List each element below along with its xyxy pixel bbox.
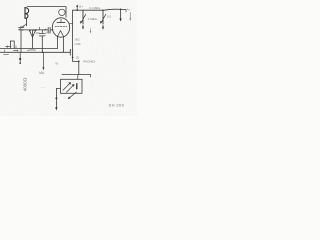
tube V1 envelope bbox=[52, 18, 69, 37]
svg-text:4000Ω: 4000Ω bbox=[22, 77, 27, 91]
pot R1 with arrow bbox=[80, 10, 86, 29]
capacitor C3 series plates bbox=[47, 27, 49, 33]
svg-text:0.5: 0.5 bbox=[107, 15, 112, 19]
arrow small mid bbox=[90, 29, 92, 34]
photocell PC1 box bbox=[61, 79, 83, 93]
junction dot rail bbox=[72, 57, 74, 59]
wire: output top line bbox=[62, 74, 91, 76]
pot R2 with arrow bbox=[100, 10, 106, 30]
junction dot grid side bbox=[52, 29, 53, 30]
tube leg 1 bbox=[57, 37, 59, 49]
arrow faint A+ bbox=[129, 12, 131, 21]
plate stub to rail bbox=[70, 23, 73, 25]
tube grid (dashed) bbox=[55, 25, 67, 27]
svg-text:A+: A+ bbox=[127, 8, 131, 12]
junction dot W2 bbox=[33, 29, 34, 30]
jack J1 bbox=[10, 41, 14, 48]
svg-text:1 MF.: 1 MF. bbox=[74, 42, 81, 46]
wire: jog to output column bbox=[73, 60, 79, 62]
variable-core hatch on L1 bbox=[20, 23, 27, 29]
capacitor C5 on rail bbox=[69, 49, 71, 55]
tube plate bbox=[57, 21, 65, 23]
tube leg 2 bbox=[63, 37, 65, 53]
bus: ground bus y52.3 bbox=[0, 51, 70, 53]
svg-text:25: 25 bbox=[76, 55, 80, 59]
svg-text:- - -: - - - bbox=[41, 85, 45, 89]
stub: phones tap with dots bbox=[19, 52, 21, 64]
svg-text:PHONES: PHONES bbox=[83, 60, 95, 64]
svg-text:MF.: MF. bbox=[46, 31, 51, 35]
svg-text:.002: .002 bbox=[74, 37, 80, 41]
junction dot W2c bbox=[44, 29, 45, 30]
cell arrows bbox=[63, 82, 75, 92]
wire W2: coil bottom to tube bbox=[21, 29, 48, 31]
plates P1 bbox=[4, 47, 18, 55]
cell cathode blob bbox=[76, 84, 78, 89]
smudge between rails bbox=[28, 49, 36, 52]
capacitor C4 electrolytic bbox=[39, 30, 45, 52]
capacitor C1 (trimmer) bbox=[19, 26, 24, 52]
svg-text:0.1 MEG.: 0.1 MEG. bbox=[89, 6, 101, 10]
tick node a bbox=[39, 27, 41, 30]
rail ticks bbox=[5, 46, 18, 53]
wire: grid top lead bbox=[27, 7, 66, 18]
lead into cell bbox=[77, 75, 79, 80]
coil L1 bbox=[25, 7, 29, 25]
junction dot W2b bbox=[36, 29, 37, 30]
wire: cell left lead down bbox=[55, 88, 60, 110]
variable arrow on cell bbox=[69, 92, 76, 98]
svg-text:MC: MC bbox=[36, 31, 40, 35]
rail: filament return y48.4 bbox=[0, 47, 58, 49]
rail B: plate rail x72.6 bbox=[72, 10, 74, 49]
svg-text:MA.: MA. bbox=[39, 71, 45, 75]
grid cap circle bbox=[59, 9, 65, 15]
arrow up B+ bbox=[76, 4, 78, 11]
tube filament bbox=[58, 31, 64, 37]
wire B+: top plate wire bbox=[73, 9, 121, 10]
plate lead up bbox=[60, 19, 62, 22]
arrow down right B- bbox=[119, 9, 126, 22]
svg-text:B+: B+ bbox=[79, 4, 83, 8]
arrow: meter MA down-arrow bbox=[42, 52, 45, 71]
variable capacitor C2 arrow V bbox=[29, 29, 36, 48]
svg-text:1 MEG.: 1 MEG. bbox=[88, 17, 98, 21]
svg-text:SH 200: SH 200 bbox=[109, 103, 125, 108]
